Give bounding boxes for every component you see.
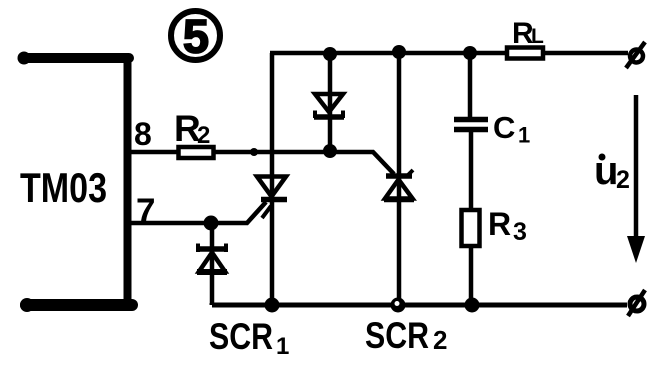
diode D1 bbox=[314, 94, 344, 118]
svg-text:3: 3 bbox=[513, 218, 527, 246]
wire diode D1 vertical bbox=[328, 53, 333, 151]
svg-text:1: 1 bbox=[518, 123, 530, 148]
node SCR2 bottom bbox=[391, 298, 406, 313]
node junction pin7/diode bbox=[204, 216, 219, 231]
terminal phi top bbox=[626, 42, 645, 68]
svg-text:L: L bbox=[531, 25, 544, 48]
svg-text:2: 2 bbox=[616, 166, 630, 194]
wire C1 top bbox=[468, 53, 473, 117]
svg-text:u: u bbox=[594, 149, 618, 193]
node blob on pin8 wire bbox=[250, 148, 258, 156]
svg-text:1: 1 bbox=[276, 333, 289, 360]
node pin8 row / D1 bbox=[323, 144, 337, 158]
terminal phi bottom bbox=[628, 290, 645, 316]
svg-text:SCR: SCR bbox=[209, 316, 273, 357]
diode D2 bbox=[197, 244, 227, 273]
capacitor C1 bbox=[454, 120, 488, 130]
wire pin7 row to SCR1 gate bbox=[131, 202, 266, 223]
node top rail / C1 bbox=[463, 46, 477, 60]
label u2 bbox=[594, 149, 630, 194]
resistor RL bbox=[507, 48, 543, 59]
wire SCR2 vertical bbox=[397, 51, 402, 303]
svg-text:TM03: TM03 bbox=[20, 164, 107, 211]
svg-text:5: 5 bbox=[183, 10, 209, 63]
wire pin8 row to SCR2 gate bbox=[131, 152, 394, 174]
wire R3 to bottom rail bbox=[469, 246, 474, 305]
figure number 5 bbox=[171, 10, 220, 63]
svg-text:2: 2 bbox=[197, 122, 210, 149]
wire C1 to R3 bbox=[469, 132, 474, 210]
svg-text:C: C bbox=[493, 110, 515, 145]
resistor R3 bbox=[462, 210, 480, 246]
svg-text:8: 8 bbox=[134, 116, 152, 152]
arrow u2 bbox=[627, 95, 645, 263]
wire diode branch vertical bbox=[210, 223, 215, 303]
thyristor SCR2 bbox=[384, 170, 414, 200]
node bottom rail / R3 bbox=[465, 298, 480, 313]
module TM03 bbox=[18, 52, 133, 313]
node top rail / D1 bbox=[323, 47, 337, 61]
svg-text:2: 2 bbox=[433, 325, 447, 355]
node SCR1 bottom junction bbox=[265, 298, 280, 313]
wire bottom rail bbox=[212, 303, 627, 305]
node top rail / SCR2 bbox=[392, 45, 406, 59]
svg-text:SCR: SCR bbox=[365, 315, 429, 356]
wire SCR1 anode/cathode vertical bbox=[270, 53, 275, 305]
resistor R2 bbox=[179, 147, 214, 158]
wire top rail bbox=[270, 51, 628, 56]
thyristor SCR1 bbox=[257, 177, 287, 219]
svg-text:R: R bbox=[488, 206, 511, 242]
